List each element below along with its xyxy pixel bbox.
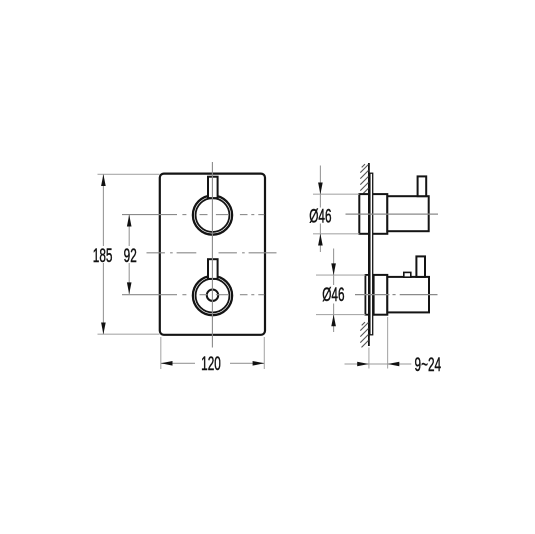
dim Ø46 top: extension lines xyxy=(313,193,359,195)
dim 120 line xyxy=(161,362,195,364)
svg-text:9~24: 9~24 xyxy=(415,355,442,375)
top knob handle (front) xyxy=(208,177,218,198)
svg-text:Ø46: Ø46 xyxy=(322,286,344,306)
wall hatch top xyxy=(360,164,368,194)
bottom knob spacer (side) xyxy=(365,275,373,315)
dim 185 extension top xyxy=(98,173,160,175)
svg-text:Ø46: Ø46 xyxy=(309,207,331,227)
dim Ø46 top: line between, interrupted by text xyxy=(319,194,321,207)
dim 92 arrow down xyxy=(127,282,132,294)
bottom knob handle (front) xyxy=(208,259,218,279)
wall hatch bottom xyxy=(360,322,368,347)
svg-text:185: 185 xyxy=(93,246,113,266)
top knob flange (side) xyxy=(359,194,387,234)
escutcheon plate (side, thin bar) xyxy=(370,173,373,335)
bottom knob flange (side) xyxy=(374,275,388,315)
svg-text:120: 120 xyxy=(201,354,221,374)
bottom knob centerline (side) xyxy=(355,294,438,296)
top knob outer circle xyxy=(193,196,232,235)
bottom knob center button xyxy=(207,290,218,301)
dim 120 arrow left xyxy=(161,361,173,366)
dim Ø46 top: arrows outside xyxy=(319,166,321,195)
dim 185 arrow down xyxy=(101,323,106,335)
bottom knob handle (side) xyxy=(416,256,425,277)
dim 9~24 extension right (flange) xyxy=(387,317,389,369)
top knob handle (side) xyxy=(418,176,427,196)
dim Ø46 bottom: arrows outside xyxy=(333,249,335,276)
bottom knob button (side) xyxy=(404,272,411,277)
bottom circle horizontal centerline xyxy=(122,294,264,296)
dim 9~24 line and arrows xyxy=(345,363,369,365)
dim 120 arrow right xyxy=(253,361,265,366)
dim 9~24 extension left (wall) xyxy=(368,348,370,369)
dim 120 extension left xyxy=(160,337,162,369)
plate middle dash-dot line xyxy=(147,252,277,254)
dim 185 extension bottom xyxy=(98,333,160,335)
dim text Ø46 bottom xyxy=(322,286,344,306)
dim 185 arrow up xyxy=(101,174,106,186)
top knob centerline (side) xyxy=(346,213,439,215)
front plate xyxy=(160,174,265,335)
dim 92 line xyxy=(128,215,130,246)
svg-text:92: 92 xyxy=(124,246,137,266)
dim 185 line xyxy=(102,174,104,246)
bottom knob body (side) xyxy=(387,277,429,313)
bottom knob inner ring xyxy=(196,279,230,313)
wall line (side view) xyxy=(368,163,370,346)
dim text 185 xyxy=(93,246,113,266)
dim text Ø46 top xyxy=(309,207,331,227)
dim text 92 xyxy=(124,246,137,266)
top circle horizontal centerline xyxy=(122,214,264,216)
dim Ø46 bottom: line between, interrupted by text xyxy=(333,275,335,285)
vertical centerline front view xyxy=(211,162,213,348)
dim 120 extension right xyxy=(263,337,265,369)
dim 92 arrow up xyxy=(127,215,132,227)
dim text 120 xyxy=(201,354,221,374)
dim Ø46 bottom: extension lines xyxy=(316,274,365,276)
top knob body (side) xyxy=(387,196,428,231)
bottom knob outer circle xyxy=(193,276,232,315)
dim text 9~24 xyxy=(415,355,442,375)
top knob inner ring xyxy=(196,198,230,232)
